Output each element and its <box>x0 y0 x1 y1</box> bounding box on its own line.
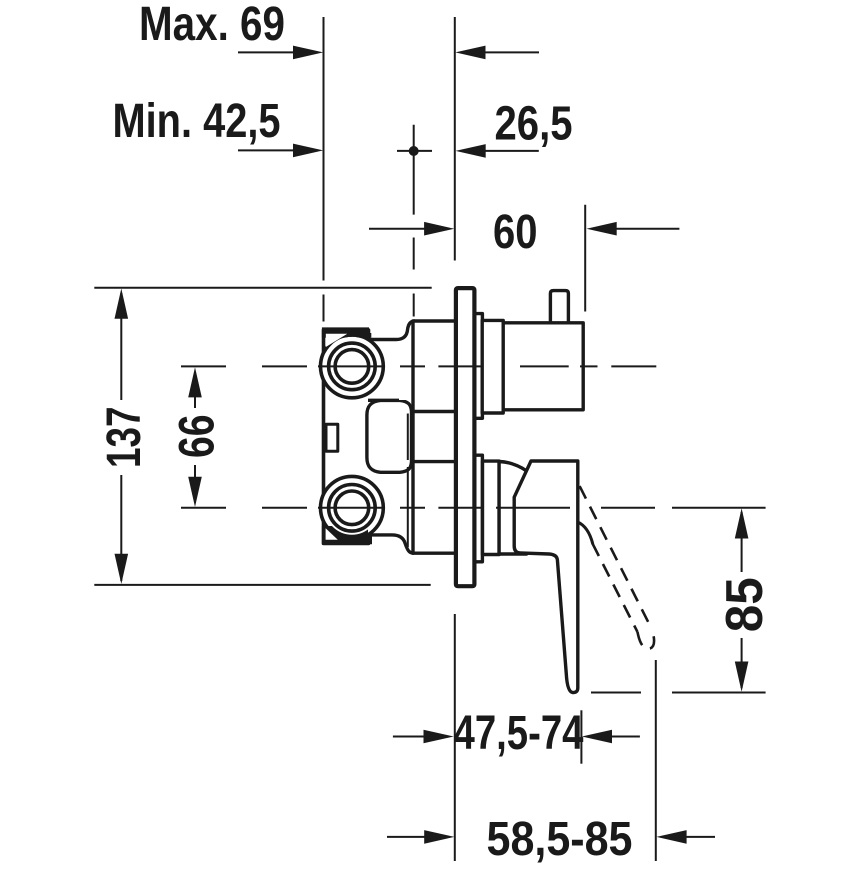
mounting bracket top (filled) <box>322 327 371 354</box>
centerline upper port (through body, on top) <box>318 365 656 367</box>
Min. 42,5 dimension line <box>238 149 316 151</box>
lever open position (dashed) <box>580 486 654 649</box>
arrows <box>115 46 749 844</box>
arrow 60 left <box>424 222 454 236</box>
bracket top white slit <box>326 334 348 347</box>
arrow 26,5 <box>456 144 486 158</box>
lower port neck bottom <box>369 535 414 553</box>
svg-text:137: 137 <box>97 407 151 469</box>
extension line block face <box>584 205 586 312</box>
58,5-85 right extension line <box>655 660 657 861</box>
47,5-74 dimension line <box>393 736 449 738</box>
pin on top of cartridge block <box>550 291 568 324</box>
extension line plate face <box>454 17 456 261</box>
bracket bottom white triangle <box>326 528 338 540</box>
arrow 60 right <box>587 222 617 236</box>
svg-text:47,5-74: 47,5-74 <box>454 706 584 760</box>
58,5-85 dimension line <box>387 836 449 838</box>
arrow Min42,5 <box>293 144 323 158</box>
port lower (three rings) <box>321 476 384 539</box>
arrow Max69 <box>293 46 323 60</box>
node reference dot <box>409 146 419 156</box>
lower collar right of plate <box>474 455 482 562</box>
dimension texts <box>97 0 774 866</box>
cartridge column <box>413 321 456 553</box>
cartridge block <box>503 323 583 410</box>
centerline x414 <box>413 238 415 270</box>
rough-in housing box <box>324 330 369 544</box>
svg-text:58,5-85: 58,5-85 <box>487 812 633 866</box>
arrow Max. 69 right <box>455 46 485 60</box>
housing notch <box>326 424 338 451</box>
arrow 137 up <box>115 289 129 319</box>
handle hub arc <box>578 522 593 544</box>
node cross marker <box>397 150 432 152</box>
137 top extension line <box>94 287 431 289</box>
arrow 58,5-85 left <box>424 830 454 844</box>
upper collar right of plate <box>474 314 482 419</box>
upper port neck <box>368 321 445 400</box>
60 dimension line <box>369 228 449 230</box>
svg-text:Max. 69: Max. 69 <box>139 0 285 51</box>
66 dimension line <box>194 372 196 408</box>
85 dimension line <box>741 512 743 572</box>
extension line wall plane (Max/Min) <box>323 17 325 281</box>
column inner thin line <box>407 414 409 548</box>
arrow 58,5-85 right <box>656 830 686 844</box>
escutcheon plate <box>456 288 475 586</box>
svg-text:Min. 42,5: Min. 42,5 <box>113 94 281 148</box>
cartridge cap <box>499 462 526 555</box>
arrow 66 down <box>188 477 202 507</box>
svg-text:66: 66 <box>168 415 224 459</box>
svg-text:85: 85 <box>716 577 774 632</box>
arrow 47,5-74 left <box>424 730 454 744</box>
mounting bracket bottom (filled) <box>322 526 372 544</box>
Max. 69 right dimension line <box>461 51 539 53</box>
137 dimension line <box>120 293 122 400</box>
26,5 dimension line <box>461 150 539 152</box>
port upper (three rings) <box>321 335 384 398</box>
arrow 47,5-74 right <box>582 730 612 744</box>
column division lines <box>413 412 456 462</box>
centerline lower port (through body, on top) <box>318 507 766 509</box>
Max. 69 dimension line <box>238 51 316 53</box>
arrow 85 down <box>735 662 749 692</box>
arrow 137 down <box>115 554 129 584</box>
handle lever (closed position) <box>514 461 578 693</box>
85 bottom extension line <box>591 692 641 694</box>
svg-text:26,5: 26,5 <box>495 97 573 151</box>
137 bottom extension line <box>94 584 430 586</box>
47,5-74 right extension tick <box>580 710 582 763</box>
arrow 66 up <box>188 367 202 397</box>
waist blob between ports <box>367 400 412 472</box>
svg-text:60: 60 <box>493 205 538 259</box>
centerline lower port (left part) <box>181 507 226 509</box>
arrow 85 up <box>735 508 749 538</box>
centerline upper port (left part) <box>181 365 226 367</box>
